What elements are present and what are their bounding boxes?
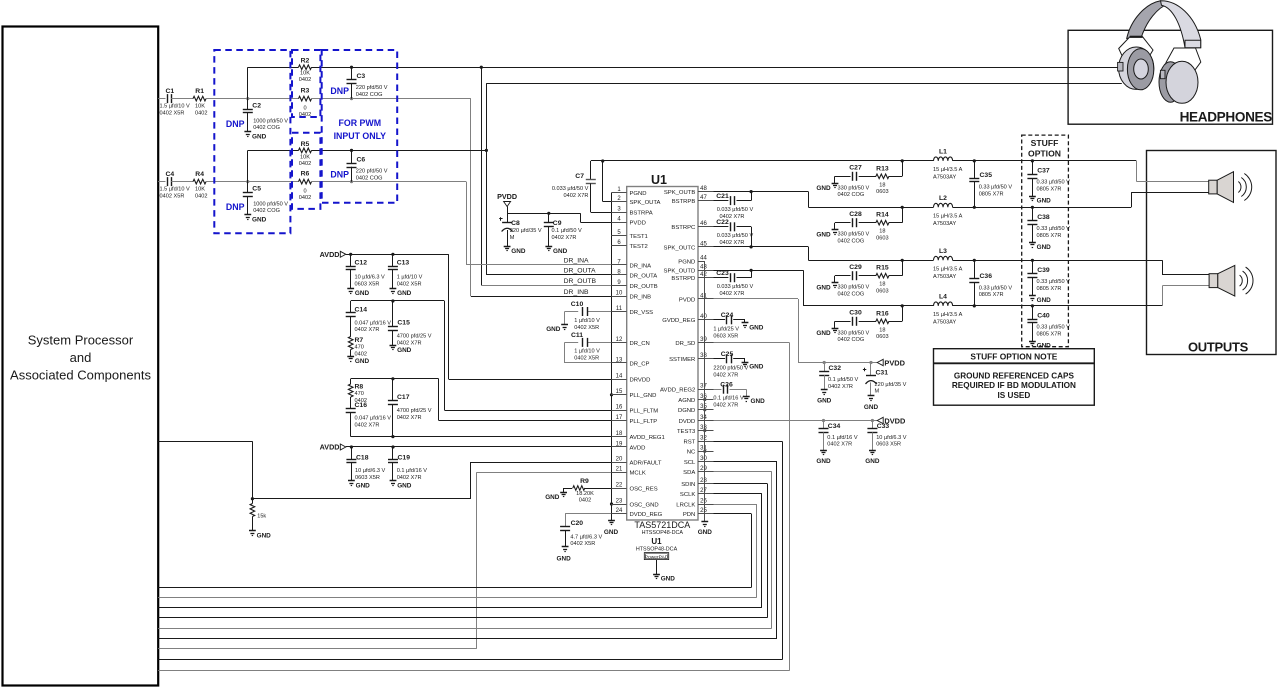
pin 7 DR_INA [611, 259, 651, 269]
pin 21 MCLK [611, 467, 646, 477]
svg-text:0.1 µfd/50 V: 0.1 µfd/50 V [552, 228, 583, 234]
svg-text:R15: R15 [876, 265, 889, 272]
ground for C26 [743, 396, 750, 398]
node AGND rail [703, 398, 706, 401]
svg-text:GND: GND [816, 232, 831, 239]
svg-text:R3: R3 [301, 88, 310, 95]
wire DR_OUTA to chip [486, 274, 611, 276]
ground for C8 [504, 246, 511, 248]
svg-text:0402: 0402 [299, 195, 311, 201]
ground for C25 [742, 362, 749, 364]
svg-text:0402 X7R: 0402 X7R [397, 340, 422, 346]
svg-text:DNP: DNP [330, 170, 349, 180]
wire L3 to speaker 2 plus [1162, 260, 1209, 275]
capacitor C20 [560, 520, 602, 547]
ground for C29 [816, 283, 838, 292]
svg-text:0402 X7R: 0402 X7R [713, 372, 738, 378]
wire DVDD_REG to C20 [565, 514, 611, 527]
svg-text:0402 COG: 0402 COG [838, 337, 865, 343]
wire MCLK bus segment [158, 648, 476, 650]
wire L2 row to outputs [953, 207, 1132, 209]
svg-text:GND: GND [1037, 198, 1052, 205]
svg-text:R8: R8 [355, 383, 364, 390]
svg-text:0402 X7R: 0402 X7R [552, 235, 577, 241]
capacitor C37 [1027, 159, 1070, 196]
svg-text:C7: C7 [575, 173, 584, 180]
svg-text:U1: U1 [651, 173, 667, 187]
svg-text:DR_VSS: DR_VSS [630, 310, 654, 316]
svg-text:C33: C33 [877, 423, 890, 430]
wire input B from processor [158, 181, 165, 183]
svg-text:PVDD: PVDD [679, 297, 695, 303]
node SPK_OUTA [601, 159, 604, 162]
wire DR_SD bus segment [158, 670, 789, 672]
svg-text:LRCLK: LRCLK [676, 502, 695, 508]
wire SCLK to processor bus [158, 494, 762, 608]
svg-text:0.1 µfd/16 V: 0.1 µfd/16 V [713, 396, 744, 402]
svg-text:10K: 10K [195, 104, 205, 110]
svg-text:AVDD_REG2: AVDD_REG2 [660, 388, 695, 394]
svg-text:10: 10 [616, 291, 623, 297]
svg-text:0402: 0402 [299, 77, 311, 83]
capacitor C14 [346, 301, 392, 337]
svg-text:0603 X5R: 0603 X5R [876, 442, 901, 448]
resistor R3 [299, 88, 312, 119]
svg-text:PGND: PGND [678, 260, 695, 266]
ground for 15k [249, 530, 256, 532]
wire R2 row left [248, 67, 299, 69]
svg-text:4700 pfd/25 V: 4700 pfd/25 V [397, 408, 432, 414]
ground for C5 [244, 214, 251, 216]
svg-text:C30: C30 [849, 310, 862, 317]
svg-text:C16: C16 [355, 402, 368, 409]
wire C4 to R4 [171, 181, 193, 183]
svg-text:C17: C17 [397, 394, 410, 401]
resistor R1 [193, 88, 207, 116]
capacitor C6 [347, 150, 388, 181]
svg-text:C9: C9 [553, 220, 562, 227]
wire PDN to processor bus [158, 514, 751, 588]
node C31 [869, 361, 872, 364]
svg-text:0603: 0603 [876, 334, 888, 340]
svg-text:ADR/FAULT: ADR/FAULT [630, 460, 662, 466]
svg-text:25: 25 [700, 508, 707, 514]
ground for C31 [864, 396, 879, 411]
svg-text:C11: C11 [571, 332, 583, 339]
capacitor C24 [713, 312, 745, 339]
svg-text:OSC_GND: OSC_GND [630, 502, 659, 508]
svg-text:PGND: PGND [630, 191, 647, 197]
svg-text:C18: C18 [356, 455, 369, 462]
node C15 top [391, 299, 394, 302]
svg-text:C13: C13 [397, 260, 410, 267]
svg-text:0603: 0603 [876, 236, 888, 242]
node C17 bottom [391, 435, 394, 438]
ground for C12 [347, 288, 354, 290]
svg-text:1.5 µfd/10 V: 1.5 µfd/10 V [160, 187, 191, 193]
svg-text:DVDD: DVDD [679, 419, 696, 425]
svg-text:GND: GND [816, 458, 831, 465]
svg-text:R7: R7 [355, 337, 364, 344]
svg-text:0.033 µfd/50 V: 0.033 µfd/50 V [717, 207, 754, 213]
headphones left yoke [1119, 37, 1153, 60]
wire BSTRPA to pin 3 [591, 212, 612, 214]
wire L1 to speaker 1 plus [1136, 161, 1208, 182]
svg-text:330 pfd/50 V: 330 pfd/50 V [838, 232, 870, 238]
svg-text:IS USED: IS USED [998, 391, 1031, 400]
svg-text:R2: R2 [301, 58, 310, 65]
svg-text:C25: C25 [721, 351, 734, 358]
svg-text:11: 11 [616, 306, 623, 312]
capacitor C32 [819, 363, 858, 390]
svg-text:21: 21 [616, 467, 623, 473]
wire C5 node up to R5 row [247, 150, 249, 181]
pin 33 TEST3 [677, 425, 714, 435]
wire SDIN to processor bus [158, 484, 767, 618]
ground for C39 [1029, 295, 1036, 297]
svg-text:470: 470 [355, 391, 364, 397]
svg-text:C8: C8 [511, 220, 520, 227]
wire SPK_OUTA vertical to pin 2 [602, 161, 604, 202]
node C12 [349, 253, 352, 256]
svg-text:DR_INB: DR_INB [630, 295, 652, 301]
headphones left connector [1118, 62, 1123, 71]
snubber branch C28 R14 [835, 207, 903, 244]
svg-text:C35: C35 [980, 172, 993, 179]
svg-text:0805 X7R: 0805 X7R [1037, 187, 1062, 193]
svg-text:GND: GND [397, 290, 412, 297]
capacitor C1 [160, 88, 191, 116]
node C17 top [391, 377, 394, 380]
svg-text:10K: 10K [195, 187, 205, 193]
svg-text:15 µH/3.5 A: 15 µH/3.5 A [933, 312, 963, 318]
node A junction C2 [246, 97, 249, 100]
pin 37 AVDD_REG2 [660, 384, 713, 394]
svg-text:L3: L3 [939, 248, 947, 255]
system processor block [3, 27, 159, 686]
pin 42 BSTRPD [671, 272, 713, 282]
svg-text:10 µfd/6.3 V: 10 µfd/6.3 V [355, 468, 386, 474]
svg-text:SPK_OUTB: SPK_OUTB [664, 190, 695, 196]
svg-text:0402 X7R: 0402 X7R [397, 415, 422, 421]
svg-text:C22: C22 [716, 219, 729, 226]
ground for C19 [390, 480, 397, 482]
svg-text:43: 43 [700, 265, 707, 271]
power flag AVDD row1 [320, 250, 346, 259]
pin 12 DR_CN [611, 337, 649, 347]
wire L2 to speaker 1 minus [1131, 193, 1209, 208]
svg-text:DR_OUTB: DR_OUTB [630, 284, 658, 290]
svg-text:0402 COG: 0402 COG [838, 239, 865, 245]
svg-text:BSTRPD: BSTRPD [671, 276, 695, 282]
wire SPK_OUTB to filter row L2 [714, 192, 934, 208]
svg-text:DNP: DNP [226, 119, 245, 129]
svg-text:1 µfd/10 V: 1 µfd/10 V [574, 318, 600, 324]
svg-text:4.7 µfd/6.3 V: 4.7 µfd/6.3 V [570, 534, 602, 540]
svg-text:C23: C23 [716, 270, 729, 277]
wire C1 to R1 [171, 98, 193, 100]
svg-text:330 pfd/50 V: 330 pfd/50 V [838, 330, 870, 336]
ground for C10 [561, 324, 568, 326]
pin 48 SPK_OUTB [664, 186, 714, 196]
wire PLL row2 to PLL_FLTM [351, 301, 612, 411]
node C18 [350, 445, 353, 448]
headphones left earcup [1119, 47, 1154, 90]
svg-text:FOR PWM: FOR PWM [339, 118, 382, 128]
svg-text:STUFF OPTION NOTE: STUFF OPTION NOTE [970, 351, 1057, 361]
capacitor C12 [346, 254, 385, 288]
power flag PVDD tap [877, 359, 883, 365]
svg-text:22: 22 [616, 482, 623, 488]
svg-text:GND: GND [751, 398, 766, 405]
svg-text:0603 X5R: 0603 X5R [713, 333, 738, 339]
pin 32 RST [684, 436, 714, 446]
svg-text:GND: GND [749, 364, 764, 371]
node C3 bottom [350, 97, 353, 100]
svg-text:SPK_OUTA: SPK_OUTA [630, 200, 661, 206]
svg-text:SPK_OUTD: SPK_OUTD [664, 269, 696, 275]
pin 26 LRCLK [676, 498, 713, 508]
svg-text:A7503AY: A7503AY [933, 274, 956, 280]
svg-text:C12: C12 [355, 260, 368, 267]
pin 2 SPK_OUTA [611, 196, 660, 206]
ground for C27 [816, 184, 838, 193]
svg-text:0.033 µfd/50 V: 0.033 µfd/50 V [552, 186, 589, 192]
svg-text:C10: C10 [571, 301, 584, 308]
svg-text:BSTRPB: BSTRPB [672, 199, 696, 205]
pin 25 PDN [683, 508, 714, 518]
svg-text:HEADPHONES: HEADPHONES [1180, 109, 1273, 124]
svg-text:32: 32 [700, 436, 707, 442]
pin 27 SCLK [680, 488, 714, 498]
svg-text:19: 19 [616, 441, 623, 447]
node C22 bottom [750, 245, 753, 248]
svg-text:R6: R6 [301, 171, 310, 178]
svg-text:1 µfd/10 V: 1 µfd/10 V [397, 275, 423, 281]
pin 31 NC [687, 446, 714, 456]
svg-text:AVDD_REG1: AVDD_REG1 [630, 435, 665, 441]
svg-text:20: 20 [616, 456, 623, 462]
svg-text:15: 15 [616, 389, 623, 395]
svg-text:18: 18 [879, 327, 885, 333]
wire DVDD net [714, 420, 878, 422]
pin 30 SCL [684, 456, 714, 466]
capacitor C16 [346, 402, 392, 437]
resistor R8 [348, 379, 367, 409]
svg-text:14: 14 [616, 374, 623, 380]
svg-text:0805 X7R: 0805 X7R [1037, 332, 1062, 338]
svg-text:0402 X7R: 0402 X7R [827, 442, 852, 448]
svg-text:GND: GND [604, 529, 619, 536]
svg-text:DR_OUTA: DR_OUTA [564, 268, 596, 275]
node C23 top [750, 269, 753, 272]
svg-text:0402 X5R: 0402 X5R [160, 193, 185, 199]
pin 44 PGND [678, 256, 707, 266]
capacitor C34 [819, 421, 858, 451]
capacitor C11 [565, 332, 612, 363]
svg-text:0.33 µfd/50 V: 0.33 µfd/50 V [979, 285, 1013, 291]
svg-text:GND: GND [397, 483, 412, 490]
svg-text:C21: C21 [716, 193, 729, 200]
svg-text:0: 0 [303, 105, 306, 111]
ground right rail [698, 522, 713, 536]
svg-text:GND: GND [356, 483, 371, 490]
svg-text:0.047 µfd/16 V: 0.047 µfd/16 V [355, 320, 392, 326]
svg-text:C36: C36 [980, 273, 993, 280]
snubber branch C27 R13 [835, 161, 903, 198]
svg-text:4700 pfd/25 V: 4700 pfd/25 V [397, 334, 432, 340]
ground for C20 [557, 547, 572, 563]
headphones right connector [1160, 70, 1165, 78]
svg-text:GND: GND [355, 358, 370, 365]
inductor L3 [933, 248, 963, 280]
svg-text:0.1 µfd/50 V: 0.1 µfd/50 V [828, 377, 859, 383]
svg-text:18.20K: 18.20K [576, 491, 594, 497]
capacitor C31 (polarized) [863, 363, 907, 396]
svg-text:30: 30 [700, 456, 707, 462]
left ground rail wire [611, 193, 613, 521]
svg-text:15k: 15k [257, 513, 266, 519]
node DR_OUTB tap [480, 66, 483, 69]
pin 45 SPK_OUTC [664, 241, 714, 251]
wire DR_OUTA vertical [486, 83, 488, 275]
node R16 tap [901, 304, 904, 307]
node C19 [391, 445, 394, 448]
headphones right earcup [1159, 61, 1198, 103]
svg-text:GND: GND [698, 529, 713, 536]
svg-text:PVDD: PVDD [497, 192, 517, 201]
ground for C24 [742, 322, 749, 324]
speaker 1 [1209, 172, 1252, 203]
svg-text:0.33 µfd/50 V: 0.33 µfd/50 V [1037, 226, 1071, 232]
wire L4 to speaker 2 minus [1162, 286, 1209, 306]
svg-text:GND: GND [816, 330, 831, 337]
node 15k [251, 497, 254, 500]
capacitor C21 [714, 192, 754, 220]
svg-text:DRVDD: DRVDD [630, 378, 651, 384]
svg-text:1.5 µfd/10 V: 1.5 µfd/10 V [160, 104, 191, 110]
wire MCLK [477, 472, 612, 649]
svg-text:18: 18 [616, 431, 623, 437]
svg-text:C19: C19 [398, 455, 411, 462]
svg-text:0402 X5R: 0402 X5R [160, 110, 185, 116]
svg-text:47: 47 [700, 195, 707, 201]
wire L4 output [953, 305, 1033, 307]
svg-text:BSTRPC: BSTRPC [671, 225, 696, 231]
svg-text:R13: R13 [876, 165, 889, 172]
capacitor C7 [552, 161, 596, 212]
pin 5 TEST1 [611, 230, 648, 240]
headphones headband [1127, 1, 1201, 48]
wire R1 to R3 [206, 98, 299, 100]
ground for C15 [390, 345, 397, 347]
svg-text:R9: R9 [580, 478, 589, 485]
capacitor C2 [243, 99, 289, 132]
resistor R6 [299, 171, 312, 202]
svg-text:28: 28 [700, 478, 707, 484]
svg-text:15 µH/3.5 A: 15 µH/3.5 A [933, 213, 963, 219]
svg-text:PowerPAD: PowerPAD [645, 554, 669, 560]
svg-text:0402 X5R: 0402 X5R [570, 541, 595, 547]
svg-text:R5: R5 [301, 141, 310, 148]
svg-text:GVDD_REG: GVDD_REG [662, 318, 695, 324]
power flag AVDD row4 [320, 443, 346, 452]
svg-text:AGND: AGND [678, 398, 695, 404]
snubber branch C29 R15 [835, 260, 903, 297]
capacitor C40 [1027, 304, 1070, 341]
svg-text:18: 18 [879, 282, 885, 288]
svg-text:PLL_FLTM: PLL_FLTM [630, 408, 659, 414]
svg-text:220 µfd/35 V: 220 µfd/35 V [875, 382, 907, 388]
ground for C18 [348, 480, 355, 482]
ground for C28 [816, 230, 838, 239]
svg-text:0.33 µfd/50 V: 0.33 µfd/50 V [1037, 180, 1071, 186]
svg-text:0805 X7R: 0805 X7R [1037, 286, 1062, 292]
svg-text:OSC_RES: OSC_RES [630, 486, 658, 492]
pin 24 DVDD_REG [611, 508, 662, 518]
U1 footprint annotation PowerPAD [636, 537, 678, 574]
svg-text:HTSSOP48-DCA: HTSSOP48-DCA [636, 546, 678, 552]
node C6 top [350, 149, 353, 152]
svg-text:1 µfd/25 V: 1 µfd/25 V [713, 327, 739, 333]
svg-text:GND: GND [749, 325, 764, 332]
svg-text:GND: GND [252, 216, 267, 223]
svg-text:SPK_OUTC: SPK_OUTC [664, 245, 696, 251]
wire DR_SD net [714, 343, 790, 671]
svg-text:GND: GND [817, 398, 832, 405]
pin 9 DR_OUTB [611, 280, 657, 290]
pin 17 PLL_FLTP [611, 415, 657, 425]
wire L3 row to outputs [953, 260, 1163, 262]
svg-text:15 µH/3.5 A: 15 µH/3.5 A [933, 167, 963, 173]
wire R4 to R6 [206, 181, 299, 183]
pin 38 SSTIMER [669, 353, 713, 363]
svg-text:0603: 0603 [876, 289, 888, 295]
svg-text:0402 X5R: 0402 X5R [574, 355, 599, 361]
wire DR_INA to chip [466, 264, 611, 266]
svg-text:GND: GND [553, 248, 568, 255]
wire R5 row left [248, 150, 299, 152]
pin 28 SDIN [681, 478, 713, 488]
svg-text:C14: C14 [355, 306, 368, 313]
DNP dashed box PWM input only [322, 50, 398, 203]
resistor R5 [299, 141, 312, 167]
wire R6 to corner [311, 181, 466, 183]
wire PLL row3 top to PLL_FLTP [351, 379, 612, 421]
svg-text:46: 46 [700, 221, 707, 227]
svg-text:10K: 10K [300, 154, 310, 160]
svg-text:0402 COG: 0402 COG [253, 208, 280, 214]
svg-text:40: 40 [700, 314, 707, 320]
svg-text:GND: GND [661, 576, 676, 583]
svg-text:C31: C31 [876, 370, 889, 377]
svg-text:220 pfd/50 V: 220 pfd/50 V [356, 85, 388, 91]
svg-text:0402 X7R: 0402 X7R [720, 291, 745, 297]
svg-text:R16: R16 [876, 310, 889, 317]
capacitor C35 [969, 159, 1012, 209]
capacitor C5 [243, 182, 289, 215]
pin 18 AVDD_REG1 [611, 431, 664, 441]
ground for C34 [816, 451, 831, 466]
pin 6 TEST2 [611, 240, 648, 250]
node C21 top [750, 190, 753, 193]
pin 36 AGND [678, 394, 713, 404]
svg-text:44: 44 [700, 256, 707, 262]
svg-text:GND: GND [865, 458, 880, 465]
svg-text:26: 26 [700, 498, 707, 504]
svg-text:38: 38 [700, 353, 707, 359]
svg-text:0.047 µfd/16 V: 0.047 µfd/16 V [355, 416, 392, 422]
